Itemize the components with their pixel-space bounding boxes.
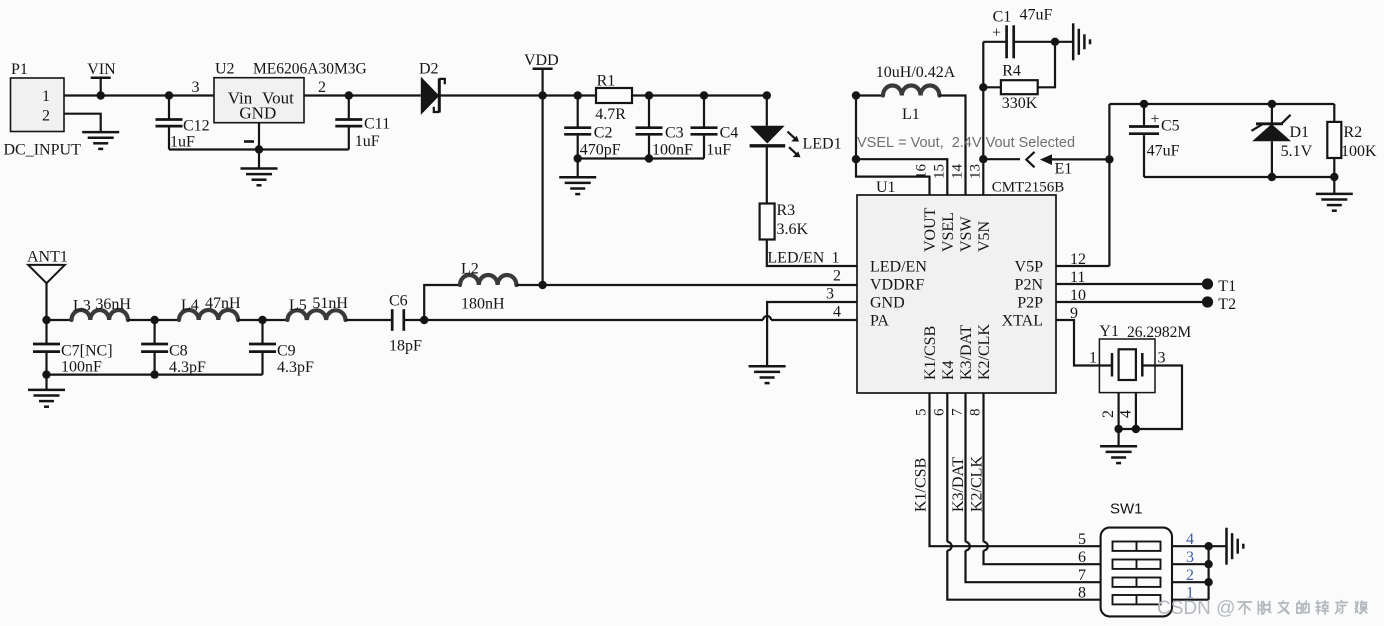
wire V5P riser: [1108, 104, 1110, 266]
node V5N/E1 junction: [979, 155, 987, 163]
svg-text:1: 1: [1089, 350, 1097, 367]
wire VOUT/VSEL drop: [855, 96, 857, 160]
node LED1 junction: [763, 91, 771, 99]
ground (SW1, rotated): [1227, 528, 1244, 565]
net label K1/CSB: [913, 458, 930, 512]
svg-text:47uF: 47uF: [1020, 7, 1053, 24]
svg-text:L3: L3: [73, 298, 91, 315]
svg-text:4.7R: 4.7R: [595, 106, 626, 123]
svg-text:K1/CSB: K1/CSB: [922, 326, 939, 380]
svg-text:K2/CLK: K2/CLK: [976, 324, 993, 380]
svg-text:7: 7: [950, 408, 966, 416]
svg-text:15: 15: [931, 164, 947, 179]
capacitor C8 4.3pF: [141, 320, 206, 376]
svg-text:47nH: 47nH: [205, 295, 241, 312]
svg-text:8: 8: [1078, 584, 1086, 601]
node SW1 bus junction 3: [1204, 560, 1212, 568]
inductor L5 51nH: [288, 295, 349, 320]
wire Y1 pin2: [1100, 393, 1119, 429]
wire ANT1 to L3: [47, 319, 72, 321]
wire R2 bottom to ground: [1333, 177, 1335, 194]
wire U1 pin3 GND: [767, 286, 857, 367]
capacitor C5 47uF (polarized): [1129, 104, 1180, 177]
capacitor C1 47uF: [983, 7, 1073, 59]
wire L1 to U1 pin14 VSW: [939, 96, 965, 196]
svg-text:1: 1: [832, 250, 840, 267]
svg-text:100nF: 100nF: [652, 142, 693, 159]
svg-text:T2: T2: [1218, 296, 1236, 313]
svg-text:CMT2156B: CMT2156B: [992, 180, 1065, 196]
regulator U2 ME6206A30M3G: [214, 61, 367, 123]
wire U2 ground rail: [169, 148, 349, 150]
svg-text:7: 7: [1078, 567, 1086, 584]
svg-text:L2: L2: [461, 261, 479, 278]
inductor L1 10uH/0.42A: [876, 64, 956, 123]
node L2/VDD junction: [538, 281, 546, 289]
wire LED1 to R3: [766, 146, 768, 204]
svg-text:Y1: Y1: [1099, 323, 1119, 340]
ground (P1 pin2): [82, 132, 119, 149]
svg-text:SW1: SW1: [1110, 501, 1143, 518]
svg-text:2: 2: [318, 79, 326, 96]
node SW1 bus junction 2: [1204, 578, 1212, 586]
capacitor C7 100nF [NC]: [33, 320, 113, 376]
svg-text:3: 3: [192, 79, 200, 96]
svg-text:470pF: 470pF: [580, 142, 621, 159]
wire Y1 pin4: [1118, 393, 1136, 429]
svg-text:GND: GND: [870, 295, 905, 312]
inductor L4 47nH: [179, 295, 241, 320]
node C8 bottom junction: [150, 370, 158, 378]
wire U2 pin2 out: [304, 79, 421, 96]
svg-text:5.1V: 5.1V: [1281, 143, 1313, 160]
resistor R2 100K: [1327, 104, 1377, 177]
svg-text:XTAL: XTAL: [1002, 313, 1043, 330]
svg-text:4: 4: [833, 304, 841, 321]
U1 left pin names: [870, 259, 927, 330]
wire U1 pin9 XTAL to Y1: [1056, 305, 1112, 366]
svg-text:C2: C2: [594, 125, 613, 142]
svg-text:VDD: VDD: [524, 52, 559, 69]
connector P1 DC_INPUT: [4, 61, 82, 159]
node R1/C2 junction: [574, 91, 582, 99]
svg-text:VSEL = Vout, 2.4V Vout Select: VSEL = Vout, 2.4V Vout Selected: [857, 135, 1075, 151]
node R2 bottom junction: [1330, 173, 1338, 181]
power symbol VIN: [87, 61, 116, 96]
wire R3 to U1 pin1 LED/EN: [767, 240, 857, 267]
node U2 GND junction: [255, 145, 263, 153]
node C11 top junction: [345, 91, 353, 99]
svg-text:L4: L4: [181, 297, 199, 314]
watermark CSDN: [1157, 598, 1367, 619]
U1 bottom pin numbers: [914, 408, 984, 416]
U1 right pin names: [1002, 259, 1044, 330]
node C3 bottom junction: [645, 154, 653, 162]
svg-text:L5: L5: [289, 297, 307, 314]
node Y1 pin4 junction: [1132, 425, 1140, 433]
wire VDD vertical to L2 node: [541, 96, 543, 286]
svg-text:10: 10: [1070, 287, 1086, 304]
wire V5N node to E1: [983, 158, 1020, 160]
wire U1 pin11 P2N to T1: [1056, 269, 1202, 286]
wire U1 pin10 P2P to T2: [1056, 287, 1202, 304]
test pad T2: [1202, 296, 1236, 313]
svg-text:26.2982M: 26.2982M: [1127, 324, 1191, 341]
svg-text:2: 2: [1100, 410, 1117, 418]
svg-text:+: +: [1151, 111, 1160, 128]
wire VIN to U2 pin3: [101, 79, 214, 96]
wire U2 GND pin: [258, 123, 260, 168]
svg-text:13: 13: [968, 164, 984, 179]
svg-text:U1: U1: [876, 179, 896, 196]
svg-text:C1: C1: [993, 9, 1012, 26]
wire L2 to VDD node: [516, 284, 542, 286]
wire SW1 ground bus: [1209, 546, 1227, 600]
svg-text:2: 2: [42, 108, 50, 125]
svg-text:P2P: P2P: [1017, 295, 1043, 312]
svg-text:6: 6: [931, 408, 947, 416]
wire U1 pin7 K3/DAT to SW1 pin7: [966, 393, 1101, 582]
node D1 top junction: [1268, 100, 1276, 108]
svg-text:5: 5: [1078, 531, 1086, 548]
wire top rail to R2: [1109, 103, 1334, 105]
svg-text:V5N: V5N: [976, 220, 993, 252]
test point E1: [1026, 152, 1109, 178]
svg-text:4: 4: [1118, 410, 1135, 418]
wire to U1 pin16 VOUT: [856, 159, 930, 195]
resistor R1 4.7R: [595, 73, 632, 124]
svg-text:C3: C3: [665, 125, 684, 142]
svg-text:VIN: VIN: [87, 61, 116, 78]
net label K2/CLK: [969, 456, 986, 512]
svg-text:R4: R4: [1002, 63, 1021, 80]
svg-text:CSDN @: CSDN @: [1157, 598, 1235, 619]
node VDD junction: [538, 91, 546, 99]
svg-text:LED/EN: LED/EN: [870, 259, 927, 276]
svg-text:36nH: 36nH: [95, 296, 131, 313]
zener diode D1 5.1V: [1252, 104, 1313, 177]
IC U1 CMT2156B: [857, 179, 1064, 393]
svg-text:R1: R1: [597, 73, 616, 90]
svg-text:P2N: P2N: [1015, 277, 1044, 294]
svg-text:14: 14: [950, 164, 966, 180]
wire L4 to L5: [238, 319, 288, 321]
net label LED/EN and pin 1: [767, 250, 839, 267]
resistor R4 330K: [983, 42, 1055, 112]
node C1 right junction: [1051, 38, 1059, 46]
node C12 top junction: [165, 91, 173, 99]
svg-text:1: 1: [42, 88, 50, 105]
svg-text:K4: K4: [940, 360, 957, 380]
power symbol VDD: [524, 52, 559, 96]
wire C5/D1/R2 bottom rail: [1144, 176, 1334, 178]
inductor L3 36nH: [72, 296, 132, 320]
svg-text:11: 11: [1070, 269, 1085, 286]
wire to U1 pin15 VSEL: [856, 159, 947, 195]
svg-text:6: 6: [1078, 549, 1086, 566]
capacitor C4 1uF: [691, 96, 739, 159]
node C3 top junction: [645, 91, 653, 99]
svg-text:K3/DAT: K3/DAT: [958, 325, 975, 380]
wire L3 to L4: [128, 319, 179, 321]
wire SW1 pin1: [1172, 599, 1209, 601]
svg-text:LED/EN: LED/EN: [767, 250, 824, 267]
wire U1 pin6 K4 to SW1 pin8: [947, 393, 1100, 600]
svg-text:180nH: 180nH: [461, 296, 505, 313]
node C9 junction: [258, 316, 266, 324]
inductor L2 180nH: [460, 261, 516, 313]
svg-text:U2: U2: [215, 61, 235, 78]
svg-text:1uF: 1uF: [170, 134, 195, 151]
svg-text:K1/CSB: K1/CSB: [913, 458, 930, 512]
svg-text:D2: D2: [419, 61, 439, 78]
diode D2 (Schottky): [419, 61, 445, 115]
node SW1 bus junction 4: [1204, 542, 1212, 550]
DIP switch SW1: [1101, 501, 1172, 617]
node D1 bottom junction: [1268, 173, 1276, 181]
svg-text:9: 9: [1070, 305, 1078, 322]
svg-text:DC_INPUT: DC_INPUT: [4, 142, 82, 159]
wire U1 pin8 K2/CLK to SW1 pin6: [984, 393, 1101, 564]
capacitor C2 470pF: [564, 96, 621, 159]
svg-text:C9: C9: [277, 343, 296, 360]
node C7 bottom junction: [42, 370, 50, 378]
wire PA line: [424, 316, 857, 320]
wire R4 node to U1 pin13 V5N: [982, 87, 984, 195]
svg-text:4.3pF: 4.3pF: [277, 359, 314, 376]
wire VDDRF to U1 pin2: [543, 268, 857, 286]
svg-text:16: 16: [914, 164, 930, 180]
node C4 top junction: [700, 91, 708, 99]
svg-text:VOUT: VOUT: [922, 207, 939, 252]
LED LED1: [750, 96, 842, 158]
node R4 left junction: [979, 83, 987, 91]
U1 bottom pin names: [922, 324, 993, 380]
svg-text:51nH: 51nH: [312, 295, 348, 312]
wire L5 to C6: [346, 319, 393, 321]
wire C2/C3/C4 bottom rail: [578, 157, 704, 159]
test pad T1: [1202, 278, 1236, 295]
svg-text:ME6206A30M3G: ME6206A30M3G: [253, 61, 367, 78]
svg-text:L1: L1: [902, 106, 920, 123]
svg-text:PA: PA: [870, 313, 889, 330]
node VOUT/VSEL junction: [852, 155, 860, 163]
svg-text:3: 3: [1158, 350, 1166, 367]
node VOUT/VSEL junction top: [852, 91, 860, 99]
capacitor C9 4.3pF: [249, 320, 314, 376]
capacitor C12 1uF: [156, 96, 210, 151]
wire Y1 pin3 loop: [1119, 366, 1182, 430]
svg-text:P1: P1: [11, 61, 28, 78]
wire antenna ground stub: [45, 375, 47, 390]
node E1/V5P junction: [1105, 155, 1113, 163]
svg-text:3.6K: 3.6K: [777, 221, 809, 238]
capacitor C6 18pF: [389, 293, 424, 355]
wire D2 cathode to VDD node: [439, 94, 542, 96]
svg-text:GND: GND: [239, 104, 276, 123]
net label K3/DAT: [950, 457, 967, 512]
svg-text:VSEL: VSEL: [940, 212, 957, 252]
svg-text:ANT1: ANT1: [27, 249, 68, 266]
wire SW1 pin2: [1172, 581, 1209, 583]
node C2 bottom junction: [574, 154, 582, 162]
SW1 right pin numbers: [1186, 531, 1194, 602]
node VIN junction: [97, 91, 105, 99]
node C6/L2 junction: [420, 316, 428, 324]
svg-text:18pF: 18pF: [389, 338, 422, 355]
svg-text:330K: 330K: [1002, 95, 1038, 112]
svg-text:100nF: 100nF: [61, 359, 102, 376]
wire Y1 ground stub: [1117, 429, 1119, 446]
wire P1 pin1 to VIN node: [64, 94, 101, 96]
wire VDD to R1: [543, 94, 596, 96]
svg-text:C8: C8: [169, 343, 188, 360]
svg-text:C11: C11: [364, 116, 390, 133]
svg-text:C5: C5: [1161, 118, 1180, 135]
svg-text:V5P: V5P: [1015, 259, 1044, 276]
svg-text:E1: E1: [1055, 161, 1073, 178]
svg-text:1uF: 1uF: [706, 142, 731, 159]
svg-text:D1: D1: [1290, 124, 1310, 141]
wire U1 pin5 K1/CSB to SW1 pin5: [930, 393, 1101, 546]
wire SW1 pin4 to ground bus: [1172, 545, 1209, 547]
svg-text:LED1: LED1: [803, 136, 842, 153]
wire C6 node up to L2: [424, 285, 460, 320]
svg-text:8: 8: [968, 409, 984, 417]
wire U1 pin12 V5P: [1056, 251, 1109, 268]
svg-text:5: 5: [914, 409, 930, 417]
wire R1 to C3 node: [632, 94, 767, 96]
svg-text:T1: T1: [1218, 278, 1236, 295]
ground (Y1): [1100, 446, 1137, 463]
wire VDD rail to L1: [856, 94, 883, 96]
ground (U1 GND pin): [749, 366, 786, 383]
capacitor C11 1uF: [335, 96, 390, 151]
svg-text:VSW: VSW: [958, 216, 975, 252]
svg-text:12: 12: [1070, 251, 1086, 268]
svg-text:47uF: 47uF: [1147, 143, 1180, 160]
node ANT1 junction: [42, 316, 50, 324]
svg-text:VDDRF: VDDRF: [870, 277, 924, 294]
capacitor C3 100nF: [636, 96, 694, 159]
ground (C2): [559, 177, 596, 194]
U1 pin4 number: [833, 304, 841, 321]
wire SW1 pin3: [1172, 563, 1209, 565]
node Y1 pin2 junction: [1114, 425, 1122, 433]
ground (U2): [241, 169, 278, 186]
svg-text:1uF: 1uF: [355, 133, 380, 150]
crystal Y1 26.2982M: [1089, 323, 1191, 393]
SW1 left pin numbers: [1078, 531, 1086, 602]
svg-text:2: 2: [833, 268, 841, 285]
svg-text:4.3pF: 4.3pF: [169, 359, 206, 376]
svg-text:10uH/0.42A: 10uH/0.42A: [876, 64, 956, 81]
wire P1 pin2 to ground: [64, 114, 101, 132]
svg-text:C7[NC]: C7[NC]: [61, 343, 113, 360]
svg-text:C4: C4: [720, 125, 739, 142]
note VSEL selection: [857, 135, 1075, 151]
node C5 top junction: [1140, 100, 1148, 108]
U1 top pin numbers: [914, 164, 984, 180]
resistor R3 3.6K: [760, 202, 809, 240]
svg-text:3: 3: [826, 286, 834, 303]
ground (C1, rotated): [1073, 23, 1090, 60]
wire C1 left down to R4: [982, 42, 984, 88]
antenna ANT1: [27, 249, 68, 321]
ground (R2): [1316, 194, 1353, 211]
svg-text:C12: C12: [183, 118, 210, 135]
minus mark near U2 GND: [244, 140, 254, 143]
node C8 junction: [150, 316, 158, 324]
svg-text:C6: C6: [389, 293, 408, 310]
ground (antenna filter): [28, 390, 65, 407]
wire C2 bottom to ground: [577, 159, 579, 178]
svg-text:R3: R3: [777, 202, 796, 219]
U1 top pin names: [922, 207, 993, 252]
svg-text:100K: 100K: [1341, 143, 1377, 160]
wire C7/C8/C9 bottom rail: [47, 374, 263, 376]
svg-text:+: +: [992, 25, 1001, 42]
svg-text:R2: R2: [1344, 124, 1363, 141]
